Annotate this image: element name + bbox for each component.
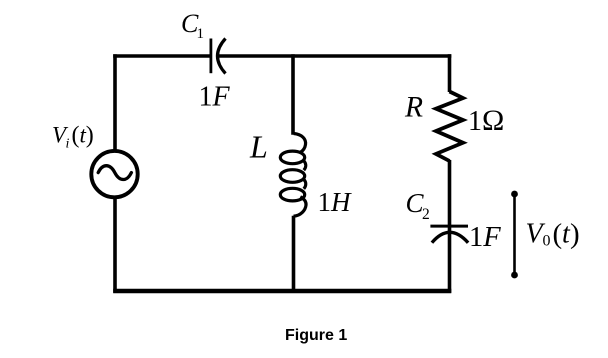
- svg-text:1H: 1H: [318, 187, 353, 217]
- wire top-left (top rail, left of C1): [113, 54, 210, 58]
- source Vi (sinusoidal voltage source): [91, 151, 137, 197]
- svg-text:1Ω: 1Ω: [468, 104, 504, 137]
- resistor R: [436, 92, 463, 162]
- label L: [249, 129, 268, 165]
- svg-text:Figure 1: Figure 1: [285, 327, 347, 344]
- wire middle-upper (middle rail above inductor): [291, 54, 295, 135]
- capacitor C1: [211, 39, 226, 74]
- svg-text:1F: 1F: [469, 222, 501, 253]
- capacitor C2: [430, 226, 468, 243]
- svg-text:0: 0: [543, 233, 551, 250]
- svg-text:): ): [570, 218, 580, 250]
- wire left-upper (left rail above source): [113, 54, 117, 150]
- wire bottom (bottom rail): [113, 289, 451, 293]
- wire right-upper (right rail above resistor): [448, 54, 452, 92]
- svg-text:): ): [86, 123, 94, 149]
- label Vi(t): [52, 123, 94, 152]
- svg-text:L: L: [249, 129, 268, 165]
- label C1: [181, 9, 204, 42]
- wire top-right (top rail, C1 to right rail): [218, 54, 452, 58]
- wire middle-lower (middle rail below inductor): [292, 216, 296, 293]
- svg-text:(: (: [72, 123, 80, 149]
- inductor L: [280, 134, 306, 217]
- node bottom output terminal: [511, 272, 518, 279]
- wire right-middle (right rail between R and C2): [448, 160, 452, 231]
- value 1F (C2): [469, 222, 501, 253]
- svg-text:1: 1: [197, 26, 205, 42]
- wire left-lower (left rail below source): [113, 198, 117, 293]
- svg-text:2: 2: [422, 206, 430, 223]
- svg-text:1F: 1F: [199, 82, 231, 113]
- caption Figure 1: [285, 327, 347, 344]
- label C2: [406, 188, 430, 223]
- value 1Ohm: [468, 104, 504, 137]
- label R: [404, 92, 423, 124]
- value 1H: [318, 187, 353, 217]
- node top output terminal: [511, 191, 518, 198]
- svg-text:R: R: [404, 92, 423, 124]
- svg-text:(: (: [553, 218, 563, 250]
- wire output measurement line: [513, 194, 516, 275]
- value 1F (C1): [199, 82, 231, 113]
- label V0(t): [526, 218, 580, 250]
- wire right-lower (right rail below C2): [448, 233, 452, 293]
- svg-text:i: i: [66, 137, 70, 152]
